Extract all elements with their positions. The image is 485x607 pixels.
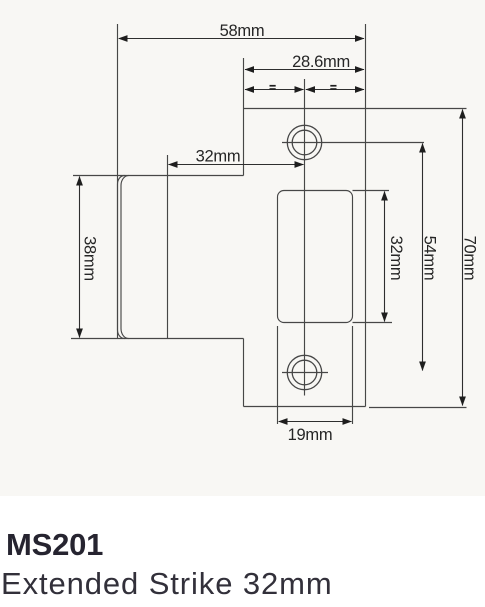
svg-text:19mm: 19mm bbox=[288, 426, 333, 444]
svg-text:70mm: 70mm bbox=[461, 236, 479, 281]
svg-text:38mm: 38mm bbox=[81, 236, 99, 281]
svg-text:58mm: 58mm bbox=[220, 22, 265, 40]
svg-text:32mm: 32mm bbox=[387, 236, 405, 281]
svg-text:28.6mm: 28.6mm bbox=[292, 53, 350, 71]
svg-text:54mm: 54mm bbox=[421, 236, 439, 281]
svg-text:32mm: 32mm bbox=[196, 147, 241, 165]
